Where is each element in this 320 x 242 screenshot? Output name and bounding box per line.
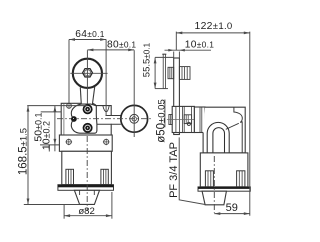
long right extension xyxy=(249,32,251,216)
top bolt nut xyxy=(179,67,190,80)
arrows 80 xyxy=(87,49,93,52)
roller1 vertical centerline / 80 ext xyxy=(86,50,88,104)
dim 80 line xyxy=(87,49,134,51)
dim 64 ext right xyxy=(105,40,107,117)
block tab right xyxy=(237,171,245,187)
roller1 lever arm xyxy=(80,87,94,105)
head inner chamfer line xyxy=(63,104,65,135)
dim 10 line xyxy=(165,49,212,51)
adapter xyxy=(194,107,205,133)
dim dia82 line xyxy=(64,215,112,217)
centerline horizontal through hub/roller2 xyxy=(57,118,153,120)
dia82 ext right xyxy=(111,192,113,219)
arrows 64 xyxy=(69,38,75,41)
svg-text:59: 59 xyxy=(226,202,238,214)
lower block xyxy=(200,153,248,187)
mounting plate xyxy=(174,58,180,135)
hub bolt axis xyxy=(167,118,195,120)
top bolt head xyxy=(168,67,174,78)
dim 168.5 line xyxy=(27,106,29,205)
svg-text:55.5±0.1: 55.5±0.1 xyxy=(142,42,153,77)
dim 64 ext left xyxy=(68,40,70,104)
ext bottom cone leader xyxy=(24,204,80,206)
ext y112 xyxy=(41,111,62,113)
pivot screw top xyxy=(83,104,93,114)
notch diagonal to arch xyxy=(226,123,239,129)
arrows 55.5 xyxy=(154,57,157,63)
dim 10 exts xyxy=(173,52,175,59)
body tab right xyxy=(101,169,108,184)
seal band right xyxy=(198,187,250,191)
cross hole lower-left xyxy=(66,139,71,144)
head notch dip xyxy=(103,106,109,112)
upper flange xyxy=(59,135,112,151)
hub (lever pivot housing) xyxy=(71,104,97,133)
roller2 inner rings xyxy=(130,114,139,123)
notch xyxy=(234,107,242,152)
arrows dia82 xyxy=(64,214,70,217)
dim 10 line xyxy=(48,145,50,152)
dim 50 line xyxy=(54,106,56,152)
arrows 50 xyxy=(54,106,57,112)
svg-text:ø50±0.05: ø50±0.05 xyxy=(156,99,168,143)
arrows 59 xyxy=(214,212,220,215)
svg-text:10±0.1: 10±0.1 xyxy=(185,40,214,51)
svg-text:80±0.1: 80±0.1 xyxy=(107,39,136,50)
svg-text:122±1.0: 122±1.0 xyxy=(195,21,233,32)
arrows 168.5 xyxy=(27,106,30,112)
dia50 label line xyxy=(164,100,166,128)
conduit arch outer xyxy=(207,122,229,152)
conduit arch inner xyxy=(213,128,225,153)
seal band xyxy=(58,185,114,191)
bottom cone xyxy=(74,190,99,204)
dim 122 line xyxy=(176,32,250,34)
dim 122 ext left xyxy=(175,32,177,51)
svg-text:168.5±1.5: 168.5±1.5 xyxy=(18,128,30,175)
main body xyxy=(203,107,245,153)
body tab left xyxy=(66,169,74,184)
dim 55.5 exts xyxy=(155,56,174,58)
cross hole lower-right xyxy=(104,139,109,144)
block tab left xyxy=(205,171,213,187)
roller1 xyxy=(73,59,102,88)
svg-text:10±0.2: 10±0.2 xyxy=(40,121,52,150)
roller1 crosshair h xyxy=(70,72,107,74)
roller1 hex nut xyxy=(83,69,93,77)
bar to roller2 xyxy=(106,116,121,124)
hub small nut xyxy=(184,115,191,124)
leader PF tap xyxy=(179,137,205,204)
dim 59 line xyxy=(214,213,250,215)
pivot screw bottom xyxy=(83,123,93,133)
roller2 xyxy=(121,105,148,132)
cross hole upper xyxy=(67,103,72,108)
dim 64 line xyxy=(69,39,106,41)
svg-text:64±0.1: 64±0.1 xyxy=(75,29,104,40)
roller1 inner circle xyxy=(84,70,90,76)
svg-text:PF 3/4 TAP: PF 3/4 TAP xyxy=(168,142,180,198)
roller2 vertical centerline / 80 ext xyxy=(133,50,135,137)
centerline vertical right view xyxy=(213,156,215,213)
ext screwline xyxy=(27,105,87,107)
arrows 10 xyxy=(168,49,173,52)
hub bolt head xyxy=(169,115,172,125)
head block xyxy=(61,103,111,135)
stop pin xyxy=(71,116,77,122)
svg-text:ø82: ø82 xyxy=(78,206,95,217)
centerline vertical body xyxy=(86,136,88,211)
dim 55.5 line xyxy=(154,57,156,88)
arrows 122 xyxy=(176,32,182,35)
actuator rod xyxy=(163,54,165,88)
ext y145 xyxy=(40,144,59,146)
dia82 ext left xyxy=(63,205,65,219)
bottom cone right xyxy=(202,191,226,205)
hub assembly xyxy=(172,106,194,132)
body block xyxy=(62,151,112,184)
